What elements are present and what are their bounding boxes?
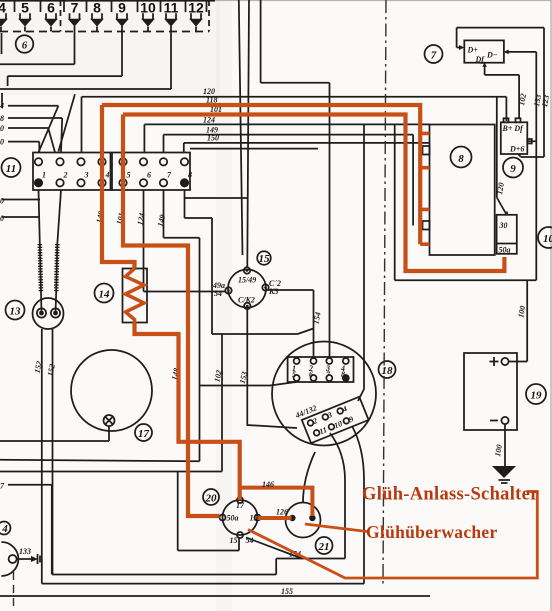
svg-text:5: 5 (127, 171, 131, 180)
wire to connector in distributor 18 (190, 125, 364, 402)
fuse F8 (90, 13, 104, 31)
svg-text:12: 12 (188, 0, 204, 16)
svg-text:C/K2: C/K2 (238, 296, 255, 305)
svg-text:6: 6 (309, 370, 313, 379)
wire 124 terminal 6 to glow monitor relay 15 (144, 190, 226, 292)
rotated connector block in 18 (293, 387, 368, 445)
left edge stub (1, 33, 4, 108)
svg-text:133: 133 (19, 547, 31, 556)
ground wire 100 (504, 424, 506, 466)
unit 8 pin tab upper (423, 146, 430, 155)
wire 150 from terminal 8 to unit 8 (184, 143, 430, 153)
ground symbol (492, 466, 516, 478)
fuse F4 (0, 13, 8, 31)
svg-text:8: 8 (93, 0, 101, 16)
label 14 (95, 284, 114, 303)
curve from connector to bus 154 (330, 433, 345, 559)
battery minus terminal (490, 420, 498, 422)
fuse F11 (164, 13, 178, 26)
svg-text:11: 11 (6, 163, 16, 175)
svg-text:6: 6 (147, 171, 151, 180)
svg-text:1: 1 (42, 171, 46, 180)
wire 124 from terminal 6 to unit 8 (144, 124, 429, 152)
wires strip terminals 1,2 down to cables (39, 190, 62, 244)
starter relay 10 (497, 215, 517, 254)
orange wire 140: terminal 4 down to resistor 14 (102, 105, 135, 269)
svg-text:Df: Df (475, 55, 486, 64)
svg-text:K3: K3 (268, 287, 278, 296)
lamp wire to left edge (0, 426, 109, 441)
wire terminal 8 to relay 15 top (185, 190, 248, 218)
orange wire 101: terminal 5 up and right to relay 10 terminal 50a (123, 115, 504, 272)
unit 8 pin tab lower (423, 221, 430, 230)
svg-text:10: 10 (140, 0, 156, 16)
distributor 18 (272, 342, 376, 446)
orange stubs to unit 8 pins (420, 133, 429, 244)
components mid (0, 251, 396, 576)
label 148 on orange drop (170, 367, 181, 381)
cable sheath right (56, 244, 57, 292)
fuse cell separators (0, 1, 207, 12)
svg-text:13: 13 (10, 306, 22, 318)
label 17 (135, 424, 152, 441)
glow starter switch 20 (223, 500, 258, 535)
fuse F10 (141, 13, 155, 31)
wire from fuse 7 to left edge (0, 26, 75, 64)
svg-text:7: 7 (431, 50, 437, 62)
wire from switch 20 terminal 15 down-left-up (178, 472, 239, 551)
strip box left (terminals 1-4) (33, 153, 111, 191)
svg-text:D+: D+ (467, 46, 479, 55)
label pointer line to Glueh-Anlass-Schalter (248, 492, 537, 579)
terminal numbers 1-8 (42, 171, 192, 180)
svg-text:7: 7 (71, 0, 79, 16)
svg-text:4: 4 (1, 523, 8, 535)
svg-text:5: 5 (292, 370, 296, 379)
svg-text:14: 14 (99, 289, 111, 301)
svg-text:8: 8 (188, 171, 192, 180)
svg-text:30: 30 (499, 221, 508, 230)
fold line dash-dot (383, 0, 386, 585)
fusebox 6 dashed outline (0, 31, 209, 33)
wire 152 left (41, 329, 43, 584)
pin arrows box 7 (459, 45, 464, 50)
label 20 (203, 489, 219, 505)
svg-text:0: 0 (0, 214, 4, 223)
label 8 (451, 147, 472, 168)
wire Df down to regulator (102) (485, 64, 519, 119)
svg-text:21: 21 (318, 541, 330, 553)
bottom area (0, 426, 430, 596)
svg-text:124: 124 (203, 116, 215, 125)
wire 147 label lower left (8, 485, 52, 575)
bus wire 155 (0, 595, 430, 597)
left edge wires to plug cables (2, 200, 40, 218)
label 6 (16, 35, 34, 53)
wire 149 terminal 7 down to distributor 18 (164, 190, 297, 461)
label 9 (503, 158, 523, 178)
svg-text:8: 8 (0, 114, 4, 123)
generator box 7 (464, 40, 504, 62)
svg-text:0: 0 (0, 138, 4, 147)
label 21 (316, 537, 333, 554)
svg-text:4: 4 (105, 171, 110, 180)
svg-text:6: 6 (22, 40, 28, 52)
labels 102 133 123 (517, 93, 528, 106)
fuse F12 (189, 13, 203, 31)
svg-text:9: 9 (118, 0, 126, 16)
orange wire 140: terminal 4 up and right to unit 8 pins (102, 105, 420, 244)
bottom wire from 152 (42, 583, 364, 585)
wire 120 from terminal 3 to relay 30 (82, 97, 507, 215)
label 7 (425, 45, 443, 63)
stub wires to terminal strip (8, 106, 58, 153)
fuse symbols F4..F12 (0, 1, 207, 32)
wire 153 from unit 15 down to distributor (247, 310, 297, 429)
wire 154 from unit 15 to connector (268, 290, 314, 357)
svg-text:4: 4 (0, 0, 6, 16)
label pointer line to Gluehueberwacher (305, 524, 367, 532)
connector block top in 18 (288, 357, 354, 382)
below strip wire labels (94, 210, 105, 224)
svg-text:D−: D− (486, 51, 498, 60)
svg-text:9: 9 (510, 163, 516, 175)
control unit 8 (430, 125, 495, 256)
glow monitor relay 15 (228, 270, 266, 308)
terminal circles top row (35, 158, 188, 165)
svg-text:150: 150 (207, 134, 219, 143)
headlamp 17 (71, 350, 152, 431)
glow monitor 21 (286, 503, 321, 538)
orange wire 148: resistor to switch 20 terminal 17 (135, 323, 240, 501)
wire 149 from terminal 7 to unit 8 pin (164, 135, 414, 226)
svg-text:126: 126 (276, 508, 288, 517)
svg-text:20: 20 (205, 493, 218, 505)
svg-text:Glühüberwacher: Glühüberwacher (366, 522, 498, 542)
label 15 (257, 251, 271, 265)
svg-text:50a: 50a (227, 514, 239, 523)
wire from bus 155 area corner (52, 559, 276, 575)
battery 19 (464, 353, 517, 430)
svg-text:50a: 50a (499, 246, 511, 255)
svg-text:3: 3 (84, 171, 89, 180)
svg-text:Glüh-Anlass-Schalter: Glüh-Anlass-Schalter (362, 485, 539, 505)
orange wire 146: switch 20 to glow monitor 21 right (240, 488, 313, 516)
wire 102 upper part (185, 218, 314, 334)
label 11 (2, 158, 21, 177)
wire from fuse 11 to left edge (0, 26, 171, 89)
wire D- to regulator D pin (133) (505, 52, 536, 280)
fuse F7 (68, 13, 82, 26)
svg-text:54: 54 (214, 289, 222, 298)
fuse F6 (44, 13, 58, 31)
cutoff plug at left edge (1, 542, 18, 576)
svg-text:0: 0 (0, 124, 4, 133)
label 13 (6, 301, 25, 320)
wire 102 down and across to bottom left (0, 334, 222, 472)
svg-text:B+ Df: B+ Df (502, 124, 525, 133)
orange wire 101: terminal 5 down to switch 20 terminal 50a (123, 115, 220, 517)
fuse F5 (18, 13, 32, 31)
orange wire 126: switch 20 terminal 19 to glow monitor 21 (258, 516, 292, 520)
label 120 on vertical (495, 182, 506, 195)
lamp symbol (104, 415, 115, 426)
label 10 (538, 227, 552, 248)
mid vertical wires from top edge (239, 0, 243, 255)
battery plus terminal (490, 357, 499, 366)
svg-text:19: 19 (250, 514, 258, 523)
cable to plug wires (41, 292, 56, 313)
long horizontal lower left (0, 460, 200, 462)
svg-text:8: 8 (341, 370, 345, 379)
fuse F9 (115, 13, 129, 26)
wire to connector pin 3 in distributor 18 (261, 0, 330, 357)
svg-text:15/49: 15/49 (238, 276, 256, 285)
svg-text:19: 19 (531, 390, 543, 402)
svg-text:4: 4 (0, 102, 4, 111)
orange resistor element in 14 (126, 269, 145, 323)
svg-text:10: 10 (543, 233, 552, 245)
cable sheath left (40, 244, 41, 292)
terminal circles bottom row (35, 179, 188, 186)
svg-text:5: 5 (21, 0, 29, 16)
svg-text:6: 6 (47, 0, 55, 16)
svg-text:11: 11 (164, 0, 179, 16)
plug socket 13 (33, 298, 64, 329)
label 18 (379, 361, 396, 378)
strip box right (terminals 5-8) (112, 153, 190, 191)
svg-text:0: 0 (0, 197, 4, 206)
fuse row numbers 4..12 (0, 0, 204, 16)
svg-text:D+6: D+6 (509, 145, 524, 154)
wire 152 right (52, 329, 54, 575)
wire D+ loop to 123 (457, 28, 544, 157)
svg-text:15: 15 (259, 253, 271, 265)
svg-text:15: 15 (230, 536, 238, 545)
regulator box 9 (501, 122, 528, 154)
svg-text:155: 155 (281, 587, 293, 596)
battery feed wire 100 from line 124 down and right to battery plus (395, 124, 537, 361)
svg-text:146: 146 (262, 480, 274, 489)
svg-text:17: 17 (138, 428, 150, 440)
wire from fuse 9 to left edge (8, 26, 122, 86)
glow plug resistor area wires (0, 190, 323, 584)
curve connector to glow monitor 21 (303, 452, 315, 503)
label 19 (526, 384, 546, 404)
diagonal wire 54 from switch 20 to bus 154 (246, 538, 302, 559)
svg-text:2: 2 (63, 171, 68, 180)
resistor 14 box (123, 269, 148, 323)
svg-text:17: 17 (236, 501, 245, 510)
terminal strip 11 (2, 153, 193, 191)
curve from connector down to lower bus (352, 426, 364, 584)
scan border top (0, 0, 215, 2)
bus wire 154 (276, 558, 345, 560)
svg-text:8: 8 (458, 153, 464, 165)
svg-text:18: 18 (382, 365, 394, 377)
